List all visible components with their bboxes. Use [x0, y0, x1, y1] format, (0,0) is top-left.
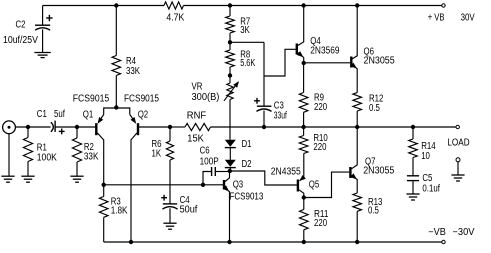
resistor R6	[152, 127, 174, 204]
svg-text:33uf: 33uf	[274, 110, 287, 121]
transistor Q1	[73, 94, 117, 185]
wire D2 to node	[229, 168, 231, 172]
resistor R12	[353, 93, 384, 127]
resistor R13	[353, 193, 383, 242]
svg-text:C2: C2	[16, 20, 26, 31]
svg-text:5.6K: 5.6K	[240, 58, 256, 69]
svg-text:FCS9015: FCS9015	[124, 94, 159, 105]
node Q4 collector rail	[301, 3, 305, 7]
node R1 tap	[26, 125, 30, 129]
capacitor C4	[161, 195, 197, 223]
svg-text:220: 220	[313, 142, 327, 153]
node C6 tap	[201, 183, 205, 187]
node output	[355, 125, 359, 129]
svg-text:+ VB: + VB	[428, 12, 445, 23]
node R4 tap	[114, 3, 118, 7]
node Q5 collector	[302, 195, 306, 199]
svg-text:220: 220	[314, 218, 328, 229]
terminal -VB	[428, 227, 475, 244]
node bias chain top	[228, 3, 232, 7]
ground	[70, 176, 83, 182]
diode D2	[225, 159, 252, 170]
diode D1	[225, 139, 252, 150]
node R14 tap	[411, 125, 415, 129]
svg-text:300(B): 300(B)	[192, 92, 220, 103]
wire VR to D1	[229, 100, 231, 140]
svg-text:5uf: 5uf	[54, 109, 65, 120]
svg-text:D2: D2	[242, 159, 252, 170]
transistor Q4	[297, 6, 340, 64]
svg-text:4.7K: 4.7K	[166, 13, 184, 24]
node Q3 emitter rail	[227, 240, 231, 244]
resistor 4.7K	[164, 2, 185, 24]
node Q2 base RNF	[168, 125, 172, 129]
transistor Q6	[350, 6, 394, 93]
node R3 tap	[102, 183, 106, 187]
transistor Q2	[116, 94, 159, 243]
input jack	[3, 121, 16, 176]
svg-text:C6: C6	[200, 146, 210, 157]
svg-text:2N3055: 2N3055	[363, 165, 394, 176]
ground	[406, 194, 419, 200]
capacitor C6	[200, 146, 230, 185]
svg-text:1K: 1K	[152, 149, 162, 160]
resistor R8	[226, 42, 256, 75]
svg-text:−VB: −VB	[428, 227, 446, 238]
ground	[34, 53, 50, 58]
node Q2 collector rail	[129, 240, 133, 244]
svg-text:33K: 33K	[84, 151, 99, 162]
resistor R4	[112, 6, 141, 108]
svg-text:Q3: Q3	[233, 180, 244, 191]
node R9-R10 rail	[301, 125, 305, 129]
svg-text:33K: 33K	[126, 66, 141, 77]
resistor RNF	[170, 110, 211, 144]
node R11 rail	[302, 240, 306, 244]
ground	[21, 176, 34, 182]
ground	[451, 175, 464, 181]
svg-text:50uf: 50uf	[180, 205, 198, 216]
svg-text:220: 220	[314, 102, 328, 113]
wire top rail left	[43, 5, 164, 7]
variable resistor VR	[192, 76, 240, 104]
svg-text:C1: C1	[37, 109, 47, 120]
svg-text:2N3055: 2N3055	[364, 56, 395, 67]
wire R7R8 to Q4 base	[230, 42, 264, 76]
svg-text:30V: 30V	[461, 12, 476, 23]
node common emitters	[114, 105, 118, 109]
svg-text:2N4355: 2N4355	[271, 167, 301, 178]
svg-text:RNF: RNF	[187, 110, 206, 121]
wire Q5c to Q7 base	[304, 172, 349, 197]
svg-text:100K: 100K	[37, 153, 57, 164]
wire bottom rail	[104, 241, 442, 243]
capacitor C2	[3, 6, 53, 53]
resistor R10	[299, 127, 328, 154]
svg-text:2N3569: 2N3569	[310, 46, 339, 57]
node Q3 collector	[228, 169, 232, 173]
node Q4 emitter	[302, 61, 306, 65]
svg-text:Q1: Q1	[83, 109, 94, 120]
svg-text:10: 10	[421, 151, 430, 162]
terminal load return	[447, 137, 469, 175]
svg-text:100P: 100P	[200, 156, 219, 167]
svg-text:FCS9015: FCS9015	[73, 94, 109, 105]
ground	[1, 176, 14, 182]
wire output rail	[211, 126, 457, 128]
resistor R11	[300, 198, 329, 243]
resistor R3	[99, 185, 128, 242]
svg-text:15K: 15K	[187, 134, 204, 145]
resistor R2	[72, 127, 98, 176]
wire D1-D2	[229, 148, 231, 160]
node Q6 collector rail	[355, 3, 359, 7]
svg-text:VR: VR	[192, 81, 203, 92]
capacitor C5	[407, 173, 440, 194]
wire C1 to Q1 base	[55, 126, 96, 128]
wire Q4 base jog	[264, 49, 296, 76]
svg-text:LOAD: LOAD	[447, 137, 469, 148]
resistor R9	[299, 63, 327, 127]
svg-text:3K: 3K	[240, 25, 250, 36]
terminal output	[456, 125, 459, 128]
transistor Q3	[223, 171, 264, 242]
transistor Q5	[271, 154, 320, 198]
resistor R1	[23, 127, 57, 176]
svg-text:−30V: −30V	[453, 227, 476, 238]
resistor R7	[226, 6, 251, 43]
node C3 rail	[262, 125, 266, 129]
wire Q2 base	[138, 126, 170, 128]
svg-text:D1: D1	[242, 139, 252, 150]
svg-text:Q5: Q5	[309, 179, 320, 190]
wire Q4e to Q6 base	[304, 62, 351, 64]
svg-text:FCS9013: FCS9013	[230, 192, 264, 203]
node R2 tap	[75, 125, 79, 129]
wire input to C1	[15, 126, 50, 128]
terminal +VB	[428, 4, 475, 24]
svg-text:0.5: 0.5	[368, 205, 379, 216]
ground	[163, 223, 176, 229]
node R8-VR	[228, 73, 232, 77]
capacitor C3	[254, 76, 287, 127]
svg-text:1.8K: 1.8K	[111, 206, 128, 217]
node R7-R8	[228, 40, 232, 44]
transistor Q7	[350, 127, 394, 193]
svg-text:0.5: 0.5	[369, 103, 380, 114]
svg-text:Q2: Q2	[138, 110, 149, 121]
svg-text:0.1uf: 0.1uf	[422, 183, 440, 194]
wire Q1c to Q3 base	[104, 184, 224, 186]
svg-text:10uf/25V: 10uf/25V	[3, 35, 38, 46]
wire top rail right	[184, 5, 442, 7]
resistor R14	[409, 127, 436, 176]
node R13 rail	[355, 240, 359, 244]
wire Q3c to Q5 base	[230, 171, 297, 185]
capacitor C1	[37, 109, 65, 134]
